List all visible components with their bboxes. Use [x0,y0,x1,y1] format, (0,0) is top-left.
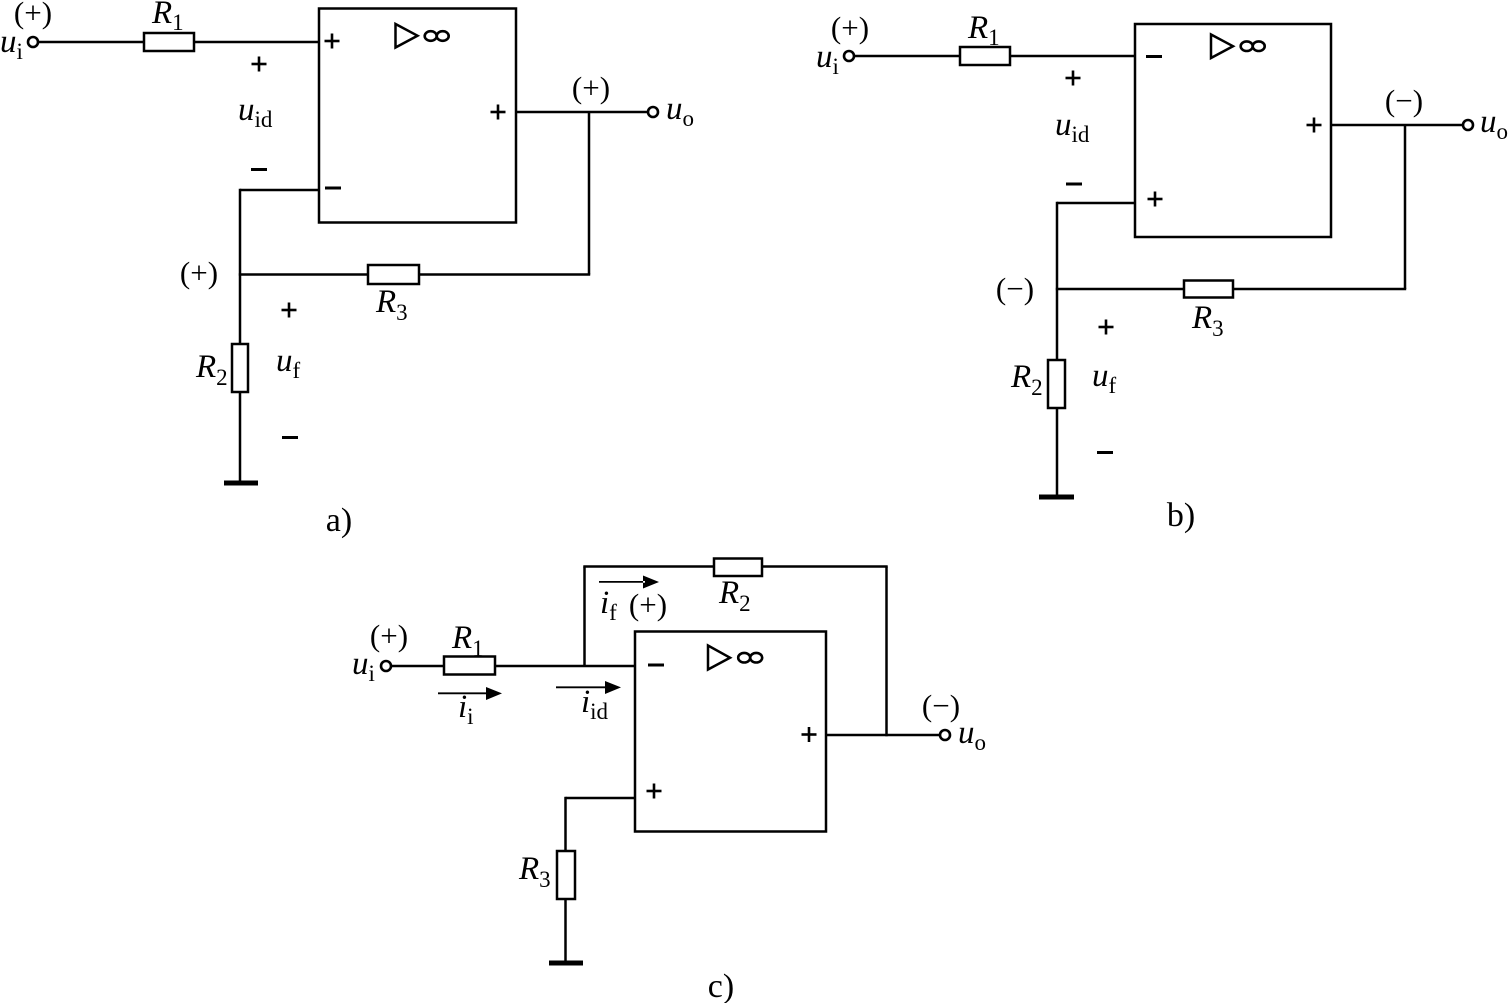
terminal u_o (a) [648,107,658,117]
wire R2 to ground (b) [1056,407,1059,497]
svg-text:(−): (−) [1385,83,1423,118]
wire noninverting input (b) [1057,202,1135,205]
resistor R3 (c) [557,851,575,899]
wire feedback top (c) [583,565,887,568]
wire R3 to ground (c) [564,899,567,963]
current arrow i_id (c) [556,681,621,694]
wire inverting node down (a) [239,189,242,275]
resistor R3 (b) [1184,281,1233,298]
terminal u_i (c) [381,661,391,671]
wire feedback horizontal (a) [239,273,590,276]
svg-text:c): c) [708,968,734,1003]
op-amp U3 box (c) [635,632,826,832]
svg-text:(+): (+) [370,618,408,653]
op-amp output pin + (b) [1307,118,1322,133]
wire input left (a) [38,41,144,44]
svg-text:(−): (−) [922,688,960,723]
resistor R2 (b) [1048,360,1065,408]
svg-text:(+): (+) [572,70,610,105]
wire R1 to op-amp (c) [495,665,635,668]
op-amp infinity symbol (c) [738,653,762,663]
wire R1 to op-amp (a) [194,41,319,44]
terminal u_o (b) [1463,120,1473,130]
op-amp pin − (a) [325,187,341,190]
label + of u_id (a) [252,57,267,72]
wire output (b) [1331,124,1463,127]
wire R1 to op-amp (b) [1010,55,1135,58]
label − of u_f (a) [282,436,298,439]
wire output (a) [516,111,648,114]
terminal u_i (b) [844,51,854,61]
terminal u_o (c) [940,730,950,740]
op-amp pin − (b) [1146,55,1162,58]
op-amp output pin + (a) [491,105,506,120]
resistor R2 (a) [232,344,248,392]
resistor R2 (c) [714,559,762,577]
wire node to R2 (b) [1056,289,1059,361]
wire feedback left vertical (c) [583,567,586,667]
op-amp triangle (b) [1211,35,1233,59]
wire node to R2 (a) [239,275,242,346]
current arrow i_f (c) [599,576,659,589]
label − of u_id (b) [1066,183,1082,186]
op-amp infinity symbol (a) [425,31,449,41]
op-amp pin + (c) [647,784,662,799]
svg-text:a): a) [326,502,352,539]
svg-text:b): b) [1167,497,1195,534]
wire R2 to ground (a) [239,392,242,483]
wire input left (c) [391,665,444,668]
svg-text:(+): (+) [629,587,667,622]
label − of u_id (a) [251,168,267,171]
wire noninverting input (c) [566,797,636,800]
ground (b) [1039,495,1074,500]
op-amp output pin + (c) [802,727,817,742]
label − of u_f (b) [1097,451,1113,454]
ground (c) [549,961,583,966]
wire feedback vertical (a) [588,112,591,275]
ground (a) [224,481,258,486]
svg-text:(+): (+) [831,10,869,45]
current arrow i_i (c) [438,687,502,700]
resistor R3 (a) [368,265,419,284]
op-amp U2 box (b) [1135,24,1331,237]
op-amp triangle (a) [396,24,418,48]
wire feedback vertical (b) [1404,125,1407,289]
label + of u_id (b) [1066,71,1081,86]
label + of u_f (a) [282,303,297,318]
wire feedback right vertical (c) [885,567,888,737]
op-amp pin + (b) [1148,192,1163,207]
resistor R1 (a) [144,33,194,51]
wire inverting input (a) [240,189,319,192]
wire node to R3 (c) [564,797,567,851]
resistor R1 (c) [444,657,495,675]
wire feedback horizontal (b) [1056,288,1406,291]
op-amp pin − (c) [648,664,664,667]
op-amp triangle (c) [708,646,730,670]
wire input left (b) [854,55,960,58]
wire output (c) [826,734,940,737]
op-amp pin + (a) [325,34,340,49]
svg-text:(+): (+) [180,255,218,290]
svg-text:(−): (−) [996,271,1034,306]
wire noninverting node down (b) [1056,202,1059,289]
terminal u_i (a) [28,37,38,47]
label + of u_f (b) [1099,320,1114,335]
resistor R1 (b) [960,47,1010,65]
svg-text:(+): (+) [14,0,52,30]
op-amp U1 box (a) [319,9,516,223]
op-amp infinity symbol (b) [1241,41,1265,51]
